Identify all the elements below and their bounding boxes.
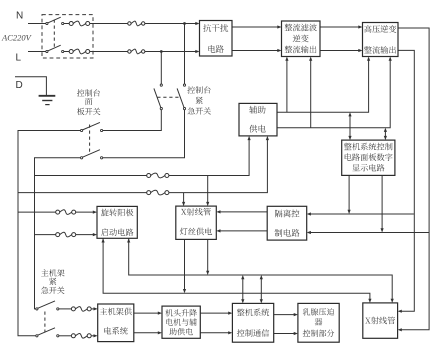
- main breaker switch pole L: [46, 50, 48, 52]
- wire H2 drop to display box: [384, 131, 386, 137]
- block X-ray tube filament supply: [176, 206, 217, 239]
- fuse FB1 on N line: [128, 22, 131, 25]
- block HV inverter rectified output: [363, 23, 399, 57]
- wire feed line 4 to rotating anode box: [76, 234, 94, 236]
- block breast compressor control: [298, 303, 339, 342]
- wire HV output upper to X-ray tube right: [398, 28, 429, 330]
- fuse FA1 on N line: [69, 22, 73, 26]
- node L-line junction: [160, 50, 163, 53]
- node N-line junction: [183, 22, 186, 25]
- wire L line to anti-interference box: [145, 51, 197, 53]
- main breaker dashed enclosure: [42, 15, 93, 58]
- console emergency switch pole 2: [183, 84, 185, 86]
- block system control panel digital display circuit: [342, 140, 395, 175]
- wire display box drop 1: [348, 175, 350, 211]
- wire bottom switch row 2 to fuse: [59, 335, 71, 337]
- fuse FC1 on feed line 1: [147, 174, 151, 178]
- wire feed line 4 left segment: [35, 234, 56, 236]
- block rotating anode start circuit: [97, 206, 137, 238]
- wire L-line drop to emergency switch 1: [160, 52, 162, 85]
- wire feed line 1 left segment: [35, 175, 147, 177]
- wire control bus Y1: [129, 238, 393, 299]
- wire H1 rise to rectifier-filter box: [286, 60, 288, 113]
- wire head motor to comms lower: [200, 332, 229, 334]
- wire filament to isolation upper: [219, 211, 267, 213]
- block head lift motor and aux supply: [162, 306, 200, 338]
- wire isolation sample upper: [310, 213, 414, 215]
- mainframe emergency switch pole 2: [36, 335, 38, 337]
- wire L line mid segment: [90, 51, 128, 53]
- wire aux output H2: [277, 60, 390, 128]
- main breaker switch pole N: [46, 22, 48, 24]
- block isolation control circuit: [267, 206, 307, 240]
- wire comms box rise 2 to bus Y1: [260, 278, 262, 300]
- mainframe emergency switch pole 1: [36, 308, 38, 310]
- wire aux output H1: [277, 60, 369, 113]
- console emergency switch link: [157, 96, 181, 98]
- wire isolation sample lower: [310, 232, 429, 234]
- wire anti-interference to rectifier-filter upper: [232, 26, 279, 28]
- wire rectifier-filter to HV-inverter lower: [320, 50, 360, 52]
- wire N line input segment: [28, 23, 46, 25]
- label console panel switch: [77, 89, 101, 115]
- wire emergency switch 2 to panel switch 2: [103, 110, 185, 158]
- wire H2 rise to rectifier-filter box: [310, 60, 312, 128]
- fuse FC2 on feed line 2: [147, 191, 151, 195]
- wire bottom fuse row 2 to box: [91, 335, 94, 337]
- svg-text:D: D: [16, 80, 23, 91]
- block anti-interference circuit: [200, 21, 233, 57]
- console panel switch link: [89, 125, 91, 155]
- wire bottom switch row 1 to fuse: [59, 308, 71, 310]
- wire feed line 2 to auxiliary supply: [169, 139, 267, 193]
- wire feed line 1 drop to filament box: [207, 176, 209, 204]
- console panel switch pole 1: [81, 129, 83, 131]
- wire bottom fuse row 1 to box: [91, 308, 94, 310]
- wire anti-interference to rectifier-filter lower: [232, 50, 279, 52]
- mainframe emergency switch link: [44, 312, 46, 333]
- wire filament to isolation lower: [219, 230, 267, 232]
- wire feed line 3 left segment: [18, 211, 56, 213]
- wire H1 drop to display box: [349, 115, 351, 137]
- wire N line to anti-interference box: [145, 23, 197, 25]
- main breaker mechanical link: [53, 20, 55, 49]
- console panel switch pole 2: [81, 157, 83, 159]
- wire comms to compressor lower: [274, 333, 295, 335]
- block mainframe power supply system: [98, 304, 134, 342]
- wire feed line 1 to auxiliary supply: [169, 139, 249, 176]
- wire head motor to comms upper: [200, 312, 229, 314]
- wire L line switch-to-fuse segment: [64, 51, 69, 53]
- wire emergency switch 1 to panel switch 1: [103, 110, 161, 131]
- wire filament drop to bus Y2: [184, 239, 186, 290]
- wire rectifier-filter to HV-inverter upper: [320, 26, 360, 28]
- block system control communication: [232, 303, 273, 342]
- wire mainframe supply to head motor lower: [134, 332, 159, 334]
- wire display box drop 2: [381, 175, 383, 229]
- block X-ray tube: [363, 303, 398, 338]
- wire comms box rise 1 to bus Y1: [242, 278, 244, 300]
- fuse FD2 on feed line 4: [56, 233, 60, 237]
- wire feed line 2 drop to filament box: [183, 193, 185, 204]
- label console emergency switch: [187, 86, 211, 114]
- fuse FB2 on L line: [128, 50, 131, 53]
- fuse FE2 on mainframe row 2: [71, 334, 75, 338]
- label mainframe emergency switch: [41, 269, 65, 294]
- wire N-line drop to emergency switch 2: [184, 24, 186, 85]
- wire control bus Y2: [103, 238, 370, 299]
- wire N line mid segment: [90, 23, 128, 25]
- wire filament drop to bus Y1: [207, 239, 209, 272]
- wire D ground lead: [15, 77, 46, 96]
- block auxiliary supply: [239, 103, 277, 135]
- fuse FE1 on mainframe row 1: [71, 307, 75, 311]
- fuse FD1 on feed line 3: [56, 210, 60, 214]
- fuse FA2 on L line: [69, 50, 73, 54]
- ground: [39, 95, 56, 97]
- wire left rail v2 from panel switch 2: [35, 158, 81, 309]
- wire feed line 3 to rotating anode box: [76, 211, 94, 213]
- wire mainframe supply to head motor upper: [134, 312, 159, 314]
- block rectifier-filter inverter output: [282, 21, 321, 57]
- console emergency switch pole 1: [160, 84, 162, 86]
- wire comms to compressor upper: [274, 314, 295, 316]
- wire N line switch-to-fuse segment: [64, 23, 69, 25]
- wire HV output lower to X-ray tube right: [398, 50, 414, 311]
- svg-text:N: N: [16, 11, 23, 22]
- svg-text:AC220V: AC220V: [1, 33, 33, 43]
- wire L line input segment: [28, 51, 46, 53]
- wire left rail v1 from panel switch 1: [18, 131, 80, 336]
- wire feed line 2 left segment: [18, 192, 147, 194]
- svg-text:L: L: [16, 53, 22, 64]
